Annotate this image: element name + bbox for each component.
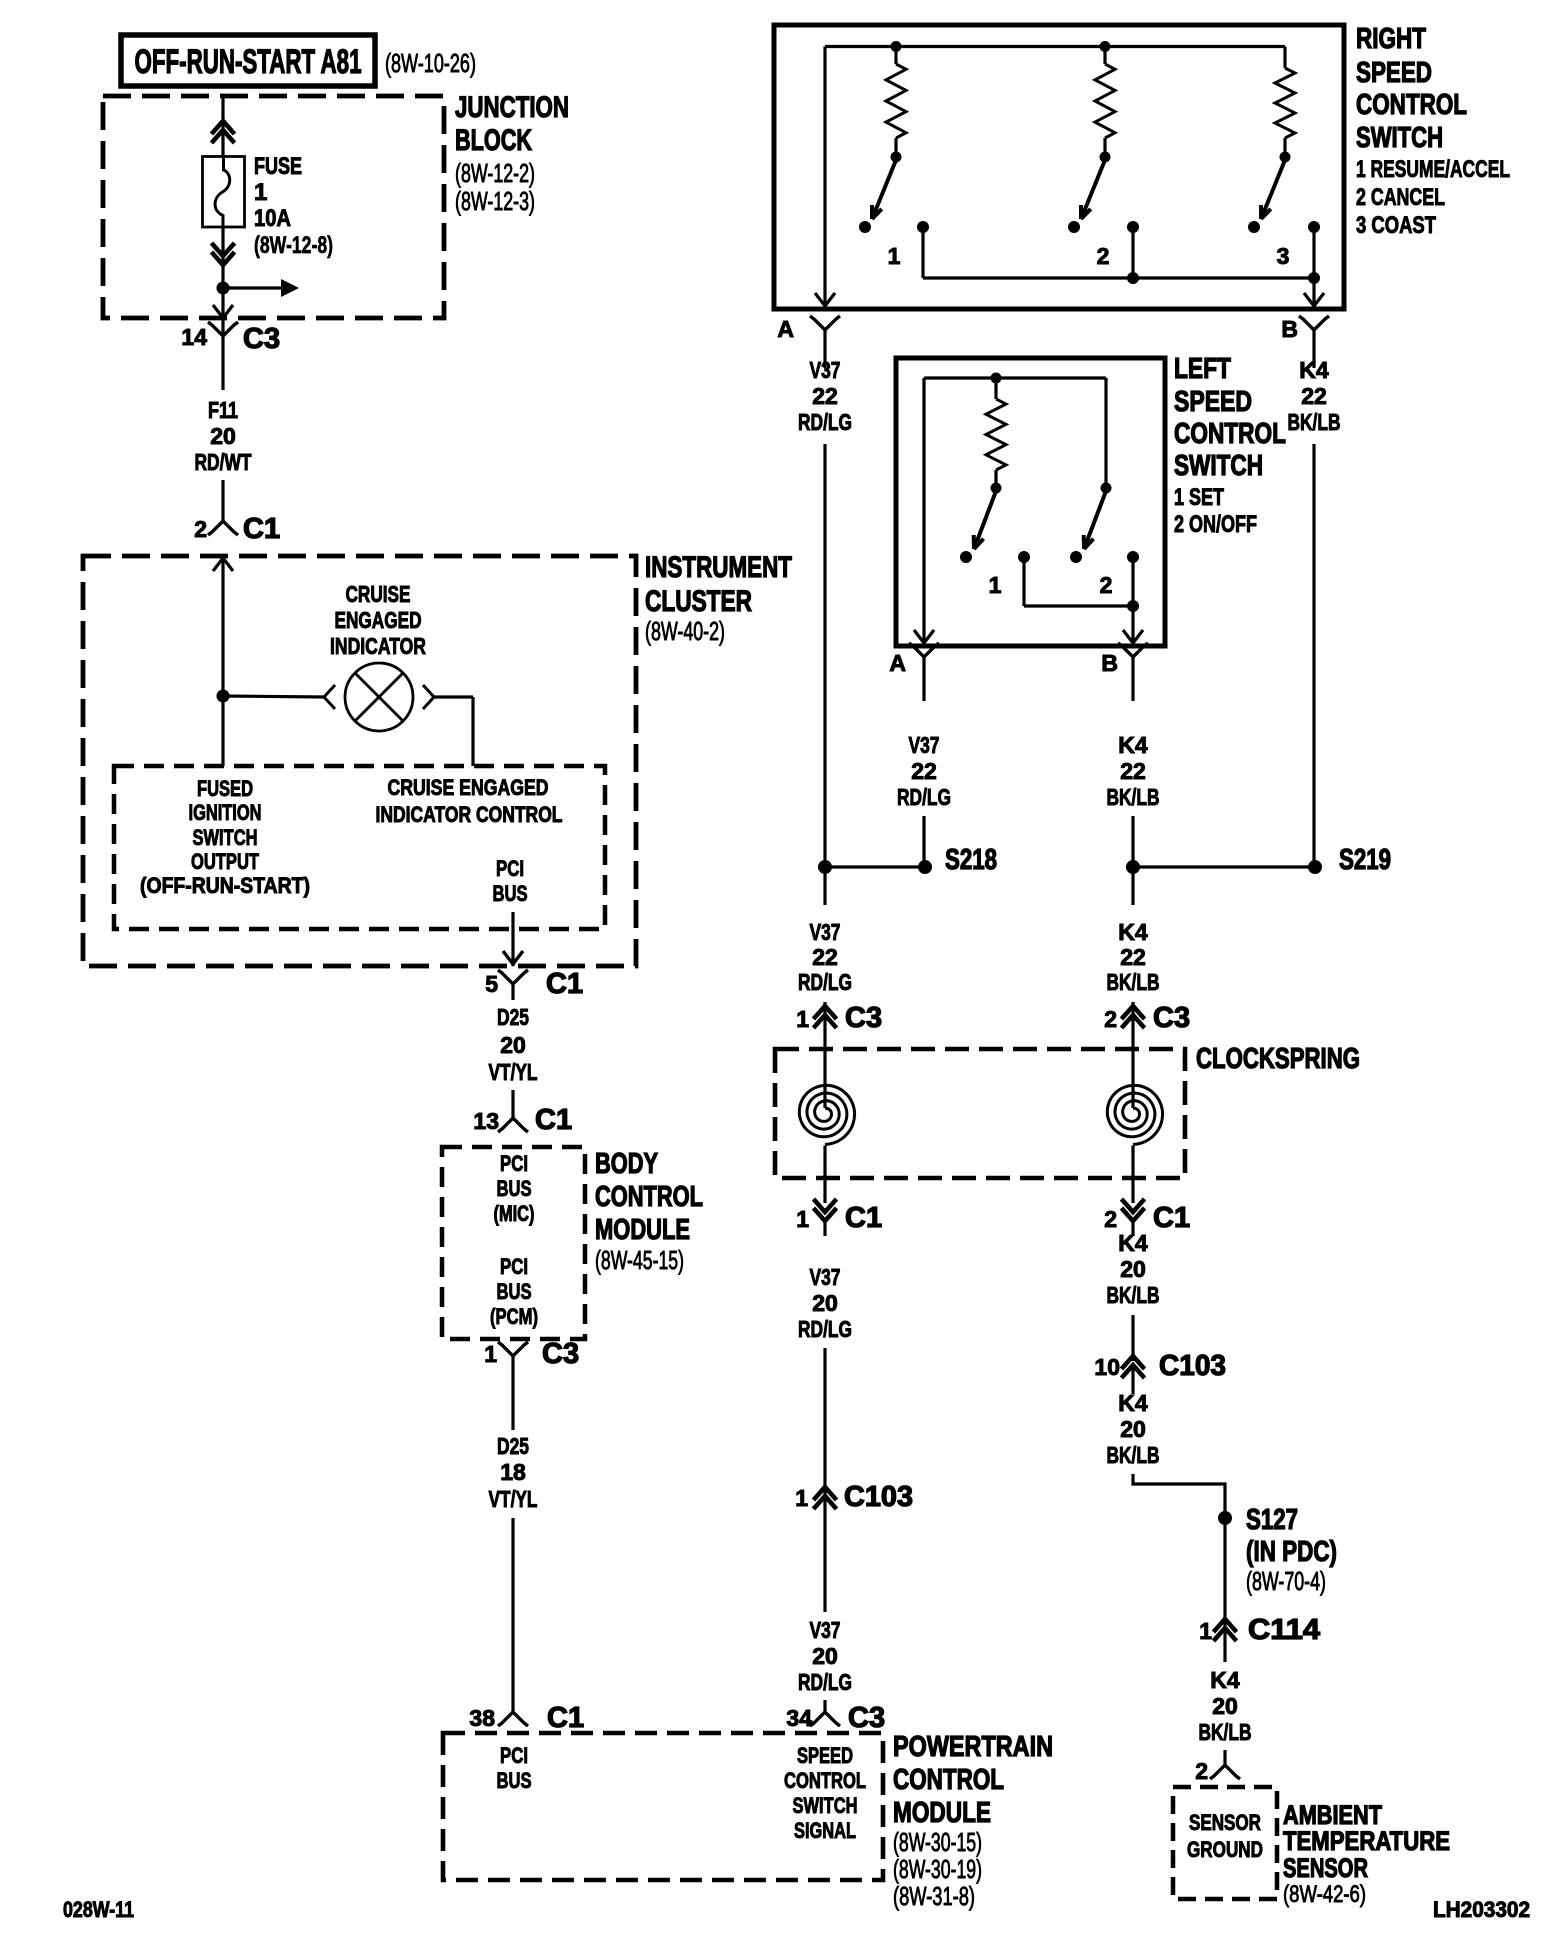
svg-text:POWERTRAIN: POWERTRAIN [893, 1731, 1053, 1763]
svg-text:2 ON/OFF: 2 ON/OFF [1174, 511, 1257, 538]
svg-text:A: A [889, 650, 906, 676]
svg-text:2: 2 [1104, 1006, 1117, 1032]
splice dot to indicator [217, 690, 230, 703]
svg-text:FUSED: FUSED [197, 776, 253, 801]
svg-text:1: 1 [989, 572, 1002, 598]
svg-text:2: 2 [1195, 1758, 1208, 1784]
left switch top bus wire [924, 376, 1106, 379]
svg-text:RD/LG: RD/LG [798, 969, 852, 995]
svg-text:(8W-40-2): (8W-40-2) [645, 616, 725, 646]
svg-text:PCI: PCI [500, 1151, 528, 1176]
svg-text:3: 3 [1277, 243, 1290, 269]
svg-text:22: 22 [1120, 944, 1146, 970]
svg-text:13: 13 [473, 1108, 499, 1134]
wire below S218 [823, 867, 826, 905]
entry arrow into instrument cluster [213, 558, 233, 571]
svg-text:20: 20 [1120, 1416, 1146, 1442]
node A81 OFF-RUN-START feed box [121, 35, 375, 86]
svg-text:INDICATOR: INDICATOR [330, 633, 426, 659]
wire below S219 [1131, 867, 1134, 905]
svg-text:34: 34 [786, 1705, 812, 1731]
svg-text:(8W-45-15): (8W-45-15) [595, 1245, 684, 1275]
svg-text:JUNCTION: JUNCTION [455, 91, 569, 124]
svg-text:SPEED: SPEED [797, 1743, 853, 1768]
svg-text:K4: K4 [1118, 1390, 1148, 1416]
svg-text:C103: C103 [1159, 1350, 1226, 1382]
resistor in cancel branch [1103, 47, 1106, 65]
svg-text:2: 2 [1104, 1206, 1117, 1232]
svg-text:CONTROL: CONTROL [1356, 89, 1467, 121]
svg-text:SWITCH: SWITCH [1174, 450, 1263, 482]
clockspring coil right [1107, 1085, 1162, 1144]
wire left switch A to splice S218 [922, 816, 925, 867]
svg-text:K4: K4 [1118, 732, 1148, 758]
instrument cluster inner dashed box [114, 766, 605, 929]
connector C1 pin 2 below clockspring [1122, 1199, 1145, 1212]
svg-text:2: 2 [1097, 243, 1110, 269]
svg-text:20: 20 [210, 423, 236, 449]
svg-text:1: 1 [796, 1006, 809, 1032]
switch 3 arm [1261, 160, 1285, 219]
svg-text:2 CANCEL: 2 CANCEL [1356, 184, 1445, 211]
lamp left bracket [324, 685, 335, 709]
wire S127 to C114 [1223, 1518, 1226, 1627]
svg-text:1: 1 [484, 1341, 497, 1367]
right speed control switch box [774, 25, 1344, 309]
svg-text:S219: S219 [1339, 844, 1391, 876]
arrow to other circuits [223, 286, 281, 289]
svg-text:BUS: BUS [497, 1176, 532, 1201]
connector C103 pin 10 [1122, 1356, 1145, 1369]
svg-text:1 SET: 1 SET [1174, 484, 1224, 511]
svg-text:IGNITION: IGNITION [189, 800, 262, 825]
svg-text:(8W-12-3): (8W-12-3) [455, 186, 535, 216]
svg-text:V37: V37 [810, 1264, 841, 1290]
svg-text:CONTROL: CONTROL [784, 1768, 866, 1793]
svg-text:10A: 10A [254, 205, 291, 232]
long wire to C103 left [823, 1348, 826, 1495]
svg-text:S127: S127 [1246, 1504, 1298, 1536]
wire terminal 3 to output B [1312, 227, 1315, 306]
svg-text:GROUND: GROUND [1187, 1837, 1263, 1862]
svg-text:TEMPERATURE: TEMPERATURE [1283, 1826, 1450, 1856]
wire into ambient temperature sensor [1223, 1750, 1226, 1765]
switch 2 contact dot [1068, 221, 1080, 233]
connector C114 pin 1 [1214, 1619, 1237, 1632]
splice S127 dot [1218, 1511, 1232, 1525]
switch 1 contact dot [859, 221, 871, 233]
switch 2 pivot dot [1100, 152, 1111, 163]
svg-text:CONTROL: CONTROL [1174, 418, 1286, 450]
left switch 2 pivot dot [1101, 483, 1112, 494]
svg-text:22: 22 [812, 383, 838, 409]
resistor in set branch [994, 378, 997, 399]
svg-text:(8W-42-6): (8W-42-6) [1283, 1881, 1366, 1908]
wire to cruise indicator lamp [223, 696, 324, 697]
svg-text:INDICATOR CONTROL: INDICATOR CONTROL [376, 802, 563, 827]
connector C1 pin 38 [498, 1712, 528, 1726]
wire below C114 [1223, 1628, 1226, 1662]
wire PCI BUS out of instrument cluster [511, 912, 514, 966]
svg-text:CRUISE ENGAGED: CRUISE ENGAGED [388, 775, 549, 800]
svg-text:V37: V37 [909, 732, 940, 758]
svg-text:1: 1 [888, 243, 901, 269]
svg-text:C1: C1 [845, 1202, 882, 1234]
svg-text:V37: V37 [810, 919, 841, 945]
svg-text:C3: C3 [848, 1702, 885, 1734]
svg-text:C1: C1 [547, 1702, 584, 1734]
svg-text:OUTPUT: OUTPUT [191, 849, 259, 874]
svg-text:B: B [1281, 316, 1298, 342]
switch 2 arm [1081, 160, 1105, 219]
exit arrow at instrument cluster border [503, 951, 523, 964]
connector C1 pin 2 [208, 521, 238, 535]
exit arrow at junction block border [213, 305, 233, 318]
svg-text:OFF-RUN-START A81: OFF-RUN-START A81 [135, 43, 362, 81]
switch 1 pivot dot [891, 152, 902, 163]
svg-text:20: 20 [500, 1032, 526, 1058]
svg-text:22: 22 [1301, 383, 1327, 409]
svg-text:C1: C1 [1153, 1202, 1190, 1234]
svg-text:K4: K4 [1118, 919, 1148, 945]
wire out of clockspring left [823, 1146, 826, 1204]
svg-text:C1: C1 [535, 1104, 572, 1136]
connector A of right switch [810, 316, 840, 330]
left speed control switch box [896, 358, 1165, 646]
svg-text:PCI: PCI [500, 1743, 528, 1768]
svg-text:(8W-31-8): (8W-31-8) [893, 1881, 975, 1911]
resistor in coast branch [1283, 47, 1286, 69]
svg-text:20: 20 [1212, 1693, 1238, 1719]
arrow at left switch B exit [1123, 630, 1143, 643]
connector C3 pin 14 [208, 322, 238, 336]
left switch 2 arm [1084, 491, 1106, 549]
svg-text:SWITCH: SWITCH [1356, 122, 1443, 154]
wire terminal 2 to bottom bus [1131, 227, 1134, 278]
wire terminal 2 to output B [1131, 557, 1134, 643]
svg-text:(OFF-RUN-START): (OFF-RUN-START) [140, 873, 310, 898]
svg-text:C3: C3 [845, 1002, 882, 1034]
svg-text:K4: K4 [1118, 1230, 1148, 1256]
svg-text:MODULE: MODULE [893, 1797, 991, 1829]
svg-text:LEFT: LEFT [1174, 353, 1231, 385]
svg-text:V37: V37 [810, 357, 841, 383]
svg-text:V37: V37 [810, 1617, 841, 1643]
bottom bus junction dot at 3 [1308, 272, 1320, 284]
svg-text:BLOCK: BLOCK [455, 124, 532, 157]
svg-text:BK/LB: BK/LB [1107, 969, 1160, 995]
connector C3 pin 1 clockspring [814, 1006, 837, 1019]
svg-text:(PCM): (PCM) [490, 1304, 538, 1329]
svg-text:RD/WT: RD/WT [195, 449, 252, 475]
right switch bottom bus wire [923, 276, 1314, 279]
bus junction dot 1 [891, 41, 902, 52]
fuse 1 10A [203, 157, 245, 228]
svg-text:3 COAST: 3 COAST [1356, 212, 1436, 239]
wire from A81 into junction block [221, 96, 224, 158]
wire right switch A to splice S218 [823, 444, 826, 867]
svg-text:5: 5 [485, 971, 498, 997]
svg-text:C103: C103 [844, 1481, 913, 1513]
junction block J1 dashed box [103, 96, 444, 318]
left switch 1 contact dot [960, 551, 972, 563]
svg-text:38: 38 [469, 1705, 495, 1731]
svg-text:(8W-70-4): (8W-70-4) [1246, 1566, 1326, 1596]
svg-text:SPEED: SPEED [1356, 57, 1432, 89]
cruise engaged indicator lamp [345, 663, 413, 731]
left switch 1 arm [974, 491, 996, 549]
svg-text:CLOCKSPRING: CLOCKSPRING [1196, 1043, 1360, 1075]
svg-text:SWITCH: SWITCH [193, 825, 258, 850]
powertrain control module dashed box [443, 1733, 883, 1880]
svg-text:2: 2 [1100, 572, 1113, 598]
svg-text:1: 1 [795, 1485, 808, 1511]
switch 1 terminal dot [917, 221, 929, 233]
connector C3 pin 34 [810, 1712, 840, 1726]
svg-text:C3: C3 [243, 323, 280, 355]
svg-text:ENGAGED: ENGAGED [335, 607, 422, 633]
svg-text:BK/LB: BK/LB [1107, 1282, 1160, 1308]
stub below C1 right [1131, 1221, 1134, 1236]
wire into PCM [823, 1700, 826, 1712]
left switch bus dot [991, 373, 1002, 384]
svg-text:14: 14 [181, 324, 207, 350]
wire terminal to bus [1022, 557, 1025, 606]
svg-text:RD/LG: RD/LG [897, 784, 951, 810]
connector B of right switch [1299, 316, 1329, 330]
resistor in resume/accel branch [894, 47, 897, 65]
svg-text:028W-11: 028W-11 [63, 1897, 134, 1922]
left switch 1 terminal dot [1018, 551, 1030, 563]
instrument cluster dashed box [83, 556, 636, 966]
bus junction dot 2 [1100, 41, 1111, 52]
svg-text:RD/LG: RD/LG [798, 1669, 852, 1695]
wire into clockspring [823, 1002, 826, 1108]
splice dot in junction block [217, 282, 230, 295]
wire inside instrument cluster [221, 556, 224, 766]
svg-text:SPEED: SPEED [1174, 386, 1252, 418]
connector A of left switch [909, 643, 939, 657]
svg-text:2: 2 [194, 516, 207, 542]
svg-text:CRUISE: CRUISE [346, 581, 411, 607]
svg-text:(MIC): (MIC) [494, 1201, 535, 1226]
lamp right bracket [423, 685, 434, 709]
wire exiting junction block [221, 288, 224, 336]
svg-text:(8W-30-19): (8W-30-19) [893, 1854, 982, 1884]
left switch 1 pivot dot [991, 483, 1002, 494]
svg-text:20: 20 [1120, 1256, 1146, 1282]
switch 3 contact dot [1248, 221, 1260, 233]
svg-text:F11: F11 [208, 397, 238, 423]
svg-text:FUSE: FUSE [254, 153, 302, 180]
switch 3 terminal dot [1308, 221, 1320, 233]
svg-text:D25: D25 [497, 1004, 529, 1030]
svg-text:BUS: BUS [497, 1279, 532, 1304]
svg-text:1 RESUME/ACCEL: 1 RESUME/ACCEL [1356, 156, 1510, 183]
clockspring dashed box [775, 1049, 1185, 1178]
wire to instrument cluster [221, 480, 224, 509]
svg-text:S218: S218 [945, 844, 997, 876]
svg-text:20: 20 [812, 1290, 838, 1316]
svg-text:22: 22 [812, 944, 838, 970]
svg-text:C3: C3 [1153, 1002, 1190, 1034]
wire jog to splice S127 [1133, 1474, 1225, 1518]
body control module dashed box [442, 1147, 585, 1339]
wire lamp to indicator control [434, 695, 473, 698]
svg-text:1: 1 [1199, 1618, 1212, 1644]
svg-text:(IN PDC): (IN PDC) [1246, 1536, 1337, 1568]
svg-text:1: 1 [254, 179, 267, 206]
svg-text:RIGHT: RIGHT [1356, 23, 1426, 55]
svg-text:BK/LB: BK/LB [1107, 784, 1160, 810]
svg-text:BUS: BUS [497, 1768, 532, 1793]
svg-text:22: 22 [1120, 758, 1146, 784]
wire right switch B to splice S219 [1312, 444, 1315, 867]
wire fuse to splice [221, 228, 224, 288]
connector C1 pin 5 [498, 970, 528, 984]
svg-text:SENSOR: SENSOR [1283, 1853, 1368, 1883]
left switch 2 terminal dot [1127, 551, 1139, 563]
svg-text:20: 20 [812, 1643, 838, 1669]
wire left switch B to splice S219 [1131, 816, 1134, 867]
svg-text:BUS: BUS [493, 881, 528, 906]
svg-text:A: A [777, 316, 794, 342]
ambient temperature sensor dashed box [1173, 1787, 1277, 1899]
connector chevrons into junction block [212, 121, 235, 134]
svg-text:K4: K4 [1299, 357, 1329, 383]
connector C3 pin 2 clockspring [1122, 1006, 1145, 1019]
wire to body control module [511, 1090, 514, 1106]
arrow at B exit [1304, 293, 1324, 306]
svg-text:VT/YL: VT/YL [489, 1059, 538, 1085]
svg-text:MODULE: MODULE [595, 1214, 690, 1246]
wire to powertrain control module [511, 1518, 514, 1712]
svg-text:RD/LG: RD/LG [798, 1316, 852, 1342]
svg-text:22: 22 [911, 758, 937, 784]
svg-text:BK/LB: BK/LB [1199, 1719, 1252, 1745]
bottom bus junction dot at 2 [1127, 272, 1139, 284]
connector B of left switch [1118, 643, 1148, 657]
svg-text:K4: K4 [1210, 1667, 1240, 1693]
connector C103 pin 1 [814, 1487, 837, 1500]
connector C1 pin 13 [498, 1118, 528, 1132]
svg-text:1: 1 [796, 1206, 809, 1232]
arrow at A exit [815, 293, 835, 306]
svg-text:CONTROL: CONTROL [893, 1764, 1004, 1796]
svg-text:BK/LB: BK/LB [1107, 1442, 1160, 1468]
svg-text:C114: C114 [1248, 1614, 1320, 1646]
connector chevrons below fuse [212, 243, 235, 256]
svg-text:(8W-10-26): (8W-10-26) [385, 48, 476, 78]
svg-text:(8W-12-8): (8W-12-8) [254, 232, 333, 259]
wire terminal 1 to bottom bus [921, 227, 924, 278]
svg-text:C1: C1 [243, 513, 280, 545]
svg-text:C1: C1 [546, 968, 583, 1000]
wire below C103 left [823, 1495, 826, 1612]
svg-text:INSTRUMENT: INSTRUMENT [645, 551, 792, 584]
left switch 2 contact dot [1070, 551, 1082, 563]
svg-text:BK/LB: BK/LB [1288, 409, 1341, 435]
junction dot on B output [1127, 600, 1139, 612]
svg-text:B: B [1101, 650, 1118, 676]
switch 1 arm [872, 160, 896, 219]
wire to C103 right [1131, 1315, 1134, 1361]
clockspring coil left [799, 1085, 854, 1144]
wire out of clockspring right [1131, 1146, 1134, 1204]
splice S219 [1133, 865, 1315, 868]
svg-text:CLUSTER: CLUSTER [645, 585, 752, 618]
switch 3 pivot dot [1280, 152, 1291, 163]
right switch output A wire [823, 47, 826, 307]
svg-text:PCI: PCI [500, 1254, 528, 1279]
svg-text:(8W-12-2): (8W-12-2) [455, 158, 535, 188]
svg-text:10: 10 [1094, 1354, 1120, 1380]
svg-text:VT/YL: VT/YL [489, 1486, 538, 1512]
left switch output A wire [922, 378, 925, 643]
on/off branch wire [1104, 378, 1107, 488]
svg-text:RD/LG: RD/LG [798, 409, 852, 435]
arrow at left switch A exit [914, 630, 934, 643]
svg-text:PCI: PCI [496, 856, 524, 881]
right switch top bus wire [825, 45, 1285, 48]
svg-text:D25: D25 [497, 1433, 529, 1459]
wire into clockspring right [1131, 1002, 1134, 1108]
svg-text:BODY: BODY [595, 1148, 658, 1180]
splice S218 [825, 865, 925, 868]
switch 2 terminal dot [1127, 221, 1139, 233]
svg-text:(8W-30-15): (8W-30-15) [893, 1827, 982, 1857]
svg-text:SENSOR: SENSOR [1189, 1810, 1261, 1835]
svg-text:SWITCH: SWITCH [793, 1793, 858, 1818]
wire below C103 right [1131, 1365, 1134, 1394]
svg-text:SIGNAL: SIGNAL [794, 1818, 856, 1843]
svg-text:LH203302: LH203302 [1433, 1897, 1530, 1922]
svg-text:C3: C3 [542, 1338, 579, 1370]
svg-text:CONTROL: CONTROL [595, 1181, 703, 1213]
svg-text:18: 18 [500, 1459, 526, 1485]
stub below C1 left [823, 1221, 826, 1236]
connector C1 pin 1 below clockspring [814, 1199, 837, 1212]
connector C3 pin 1 below BCM [498, 1342, 528, 1356]
connector pin 2 of sensor [1210, 1765, 1240, 1779]
